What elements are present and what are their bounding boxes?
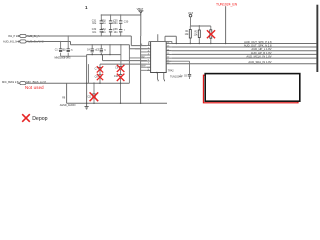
- svg-text:VBAT: VBAT: [137, 7, 144, 11]
- port P2 (IN2): [20, 40, 26, 43]
- svg-text:Not used: Not used: [25, 85, 44, 90]
- svg-text:10n: 10n: [114, 31, 119, 34]
- wire jog from net A down to IC pin 1: [131, 36, 147, 46]
- top wire over IC (y=41.3): [149, 41, 172, 43]
- junction dots net B jog: [60, 41, 122, 45]
- capacitor column 1 (x=101.3): [100, 15, 102, 36]
- wire net C (y=83.2): [17, 82, 129, 84]
- wire rail y=56.2 to ground column: [61, 55, 87, 57]
- right bundle wires: [172, 44, 317, 64]
- IC U1 left pins: [147, 46, 151, 71]
- wire drops x=110 x=120.9 to rail: [110, 45, 121, 55]
- power symbol PWR1 (top, x=140.8): [138, 11, 143, 15]
- svg-text:C30: C30: [124, 21, 129, 24]
- svg-text:Depop: Depop: [32, 116, 47, 122]
- black rectangle: [205, 74, 300, 102]
- svg-text:10n: 10n: [102, 31, 107, 34]
- long vertical wire x=140.6 (bus to rail): [140, 15, 142, 103]
- wire from IC top-left corner down (x=148.8): [148, 42, 150, 46]
- depop capacitor C11 (x=94): [93, 83, 95, 103]
- junction dots on bus: [101, 14, 122, 15]
- svg-text:AGND_AUDIO: AGND_AUDIO: [60, 104, 76, 107]
- sheet border bar (right): [316, 5, 318, 72]
- red X over C10: [117, 74, 125, 81]
- wire y=60.6 to IC pin 6: [103, 55, 147, 61]
- power rail y=26: [191, 25, 211, 27]
- resistor R2 (x=199.5): [198, 26, 200, 44]
- svg-text:10u: 10u: [92, 22, 97, 25]
- IC U1 body: [151, 42, 167, 73]
- box right edge wire x=129.4: [128, 49, 130, 83]
- ground symbol GND1 (x=86.6): [85, 107, 89, 110]
- wire x=66.6 down to ground rail: [66, 83, 68, 103]
- depop capacitor column x=120.5 in box: [120, 55, 122, 104]
- red X over C9: [117, 65, 125, 72]
- svg-text:AUD_OUT_SPK_P 2.8: AUD_OUT_SPK_P 2.8: [244, 40, 272, 44]
- capacitor C22 (x=66.6): [67, 36, 69, 56]
- svg-text:AUD_HP_L 1.8V: AUD_HP_L 1.8V: [251, 47, 271, 51]
- capacitor C41 (x=93.6 mid block): [91, 45, 93, 55]
- svg-text:1: 1: [85, 5, 88, 10]
- junction dots on net C: [86, 83, 121, 84]
- wire corner net B to IC pin 2: [129, 45, 147, 49]
- red X over C11 (big): [90, 92, 99, 101]
- svg-text:MMZ1608-0R5: MMZ1608-0R5: [55, 56, 72, 59]
- short wires into remaining IC left pins: [129, 49, 147, 71]
- legend: red X: [22, 114, 30, 122]
- depop capacitor column x=100 in box: [99, 64, 101, 83]
- IC U1 bottom pins with hooks: [158, 73, 165, 82]
- svg-text:AUD_OUT_SPK_N 2.8: AUD_OUT_SPK_N 2.8: [244, 43, 272, 47]
- svg-text:AUD_SDA_IN 1.8V: AUD_SDA_IN 1.8V: [248, 60, 271, 64]
- power bus wire (y=15): [101, 14, 141, 16]
- wire TUN1024_EN vertical x=225.6: [225, 6, 227, 43]
- svg-text:AUD_HP_R 1.8V: AUD_HP_R 1.8V: [251, 51, 272, 55]
- svg-text:MIC_BIAS 2.8: MIC_BIAS 2.8: [2, 80, 19, 84]
- IC U1 top pins: [158, 34, 165, 41]
- junction dots rail: [92, 54, 111, 55]
- svg-text:TUN1024_EN: TUN1024_EN: [216, 2, 238, 6]
- svg-text:C11: C11: [87, 96, 92, 98]
- port P1 (IN1): [20, 34, 26, 37]
- capacitor C21 (x=57.7): [60, 42, 62, 57]
- capacitor C42 (x=101.4 mid block): [100, 45, 102, 55]
- wire net A (y=36): [17, 35, 131, 37]
- red rectangle (behind): [203, 75, 298, 103]
- junction dots on bundle: [176, 43, 227, 44]
- svg-text:C10: C10: [114, 76, 119, 78]
- wire y=64.1 to IC pin 7: [100, 63, 147, 65]
- svg-text:V2.8: V2.8: [188, 12, 194, 15]
- power symbol PWR2 (x=192.3): [189, 14, 192, 17]
- junction dots net A: [68, 35, 122, 36]
- wire loop from IC top pin x=165 to right bundle: [165, 36, 176, 43]
- resistor R3 (x=210.8, depop): [210, 26, 212, 44]
- capacitor column 2 (x=110.6): [110, 15, 112, 36]
- resistor R1 (x=192.3): [189, 26, 191, 44]
- red X over R3: [207, 30, 215, 38]
- port P3 (Not used net, y=83.2): [20, 82, 26, 85]
- junction dots on rail: [86, 103, 141, 104]
- red X over C8: [97, 74, 103, 80]
- ground rail y=103.3: [67, 102, 167, 104]
- red X over C7: [97, 66, 103, 72]
- box left edge wire x=88.5: [88, 64, 90, 83]
- svg-text:100n: 100n: [112, 22, 118, 25]
- svg-text:10n: 10n: [92, 31, 97, 34]
- IC U1 right pins: [166, 44, 171, 64]
- wire net B (y=41.5): [17, 42, 129, 45]
- svg-text:TPA2: TPA2: [168, 69, 174, 72]
- wire rail y=54.6: [87, 54, 121, 56]
- wire left ground column x=86.6: [86, 55, 88, 107]
- junction dot IC bottom: [156, 72, 158, 74]
- capacitor C12 (x=189.5): [188, 74, 191, 76]
- capacitor column 3 (x=120.7): [120, 15, 122, 36]
- svg-text:AUD_MCLK_IN 1.8V: AUD_MCLK_IN 1.8V: [246, 55, 271, 59]
- wire from pin y=61.2 down right of IC: [172, 61, 190, 74]
